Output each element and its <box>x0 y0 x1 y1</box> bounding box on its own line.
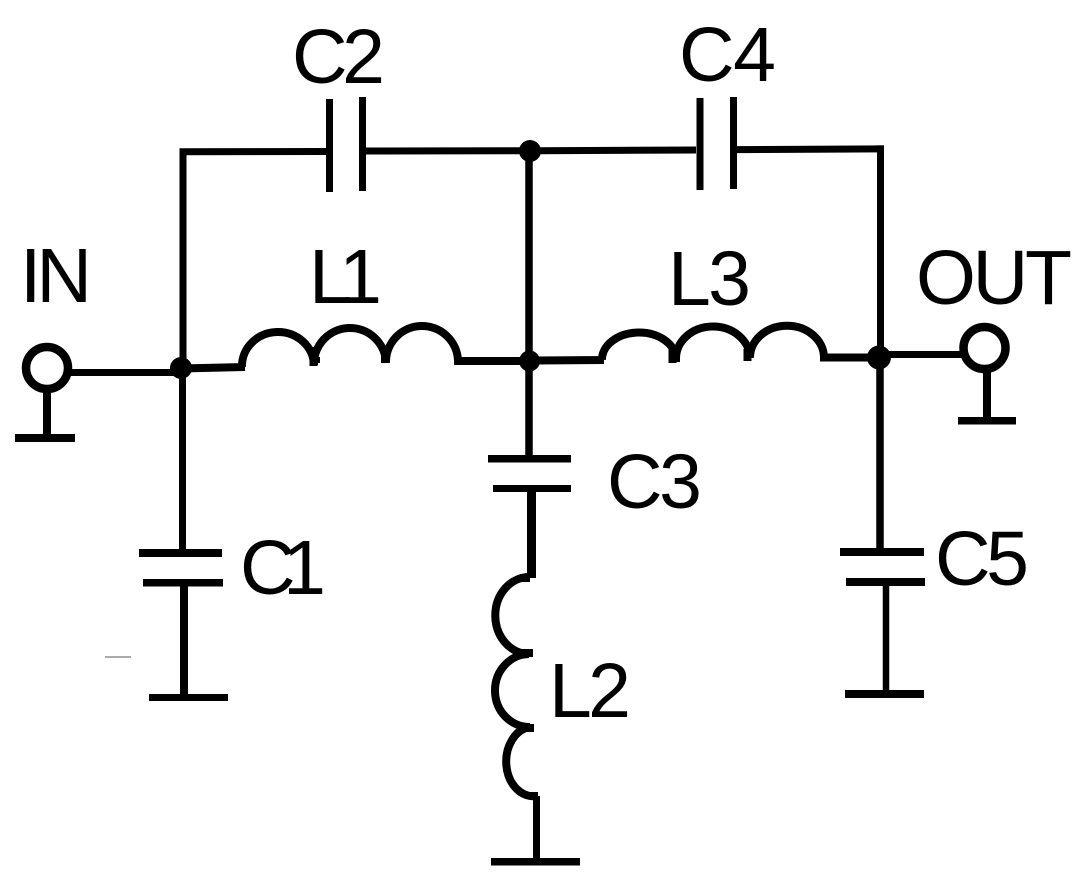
inductor L1 <box>181 326 522 368</box>
wire OUT terminal stem <box>983 369 991 419</box>
capacitor C4 <box>697 98 704 190</box>
wire C3 to L2 <box>527 492 536 578</box>
svg-text:L3: L3 <box>668 236 751 322</box>
svg-text:OUT: OUT <box>916 235 1072 321</box>
ground OUT <box>958 417 1016 425</box>
ground C1 <box>149 694 228 701</box>
inductor L2 <box>495 577 537 796</box>
wire top rail segment B <box>366 147 522 154</box>
capacitor C2 <box>326 99 333 192</box>
wire top rail right segment <box>737 145 884 153</box>
wire left vertical (IN node to top rail) <box>180 149 187 369</box>
inductor L3 <box>537 326 869 361</box>
wire middle vertical (top junction to middle node) <box>525 151 533 361</box>
svg-text:L1: L1 <box>309 234 382 320</box>
wire IN terminal to node <box>70 369 181 376</box>
capacitor C5 <box>840 548 924 556</box>
wire top rail segment C <box>538 147 696 155</box>
capacitor C1 <box>139 549 222 557</box>
svg-text:L2: L2 <box>549 648 631 734</box>
wire OUT node down to C5 <box>876 358 884 549</box>
wire C1 to ground <box>180 586 188 697</box>
node IN junction <box>170 357 192 379</box>
ground C5 <box>845 690 924 698</box>
wire L2 to ground <box>533 796 540 862</box>
svg-text:C2: C2 <box>292 14 385 100</box>
wire OUT node to terminal <box>889 351 962 358</box>
artifact faint line <box>105 656 131 658</box>
terminal IN <box>26 347 68 389</box>
wire C5 to ground <box>883 586 890 692</box>
wire top rail left segment <box>180 148 327 155</box>
ground IN <box>15 434 75 442</box>
wire IN node down to C1 <box>179 368 186 549</box>
node junction top middle <box>519 140 541 162</box>
ground L2 <box>491 858 580 866</box>
svg-text:IN: IN <box>20 233 92 319</box>
svg-text:C4: C4 <box>679 12 776 98</box>
svg-text:C1: C1 <box>240 525 326 611</box>
svg-text:C3: C3 <box>607 439 702 525</box>
capacitor C3 <box>488 455 571 463</box>
wire middle node down to C3 <box>525 361 533 455</box>
node OUT junction <box>867 346 891 370</box>
terminal OUT <box>964 327 1006 369</box>
svg-text:C5: C5 <box>935 516 1029 602</box>
wire right vertical (top rail to OUT node) <box>877 145 884 357</box>
wire IN terminal stem <box>43 389 51 436</box>
node middle junction <box>519 351 540 372</box>
